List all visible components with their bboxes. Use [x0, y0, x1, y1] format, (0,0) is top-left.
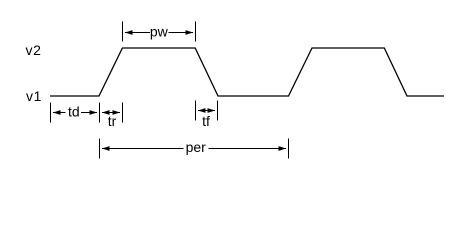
dimension tr — [100, 103, 123, 123]
svg-text:pw: pw — [150, 24, 169, 40]
dimension per — [100, 139, 289, 159]
per right arrowhead — [279, 146, 287, 151]
td right arrowhead — [90, 110, 98, 115]
tf left arrowhead — [198, 108, 206, 113]
pulse waveform — [50, 48, 444, 96]
svg-text:per: per — [186, 139, 207, 155]
tf right arrowhead — [208, 108, 216, 113]
dimension pw — [123, 22, 196, 42]
svg-text:td: td — [68, 104, 80, 120]
svg-text:tr: tr — [108, 113, 117, 129]
tr left arrowhead — [102, 110, 110, 115]
svg-text:v1: v1 — [26, 88, 42, 104]
tr right arrowhead — [113, 110, 121, 115]
pw right arrowhead — [186, 30, 194, 35]
per left arrowhead — [102, 146, 110, 151]
svg-text:v2: v2 — [26, 42, 42, 58]
td left arrowhead — [53, 110, 61, 115]
dimension td — [51, 103, 98, 123]
dimension tf — [196, 101, 218, 121]
svg-text:tf: tf — [202, 113, 210, 129]
pw left arrowhead — [125, 30, 133, 35]
